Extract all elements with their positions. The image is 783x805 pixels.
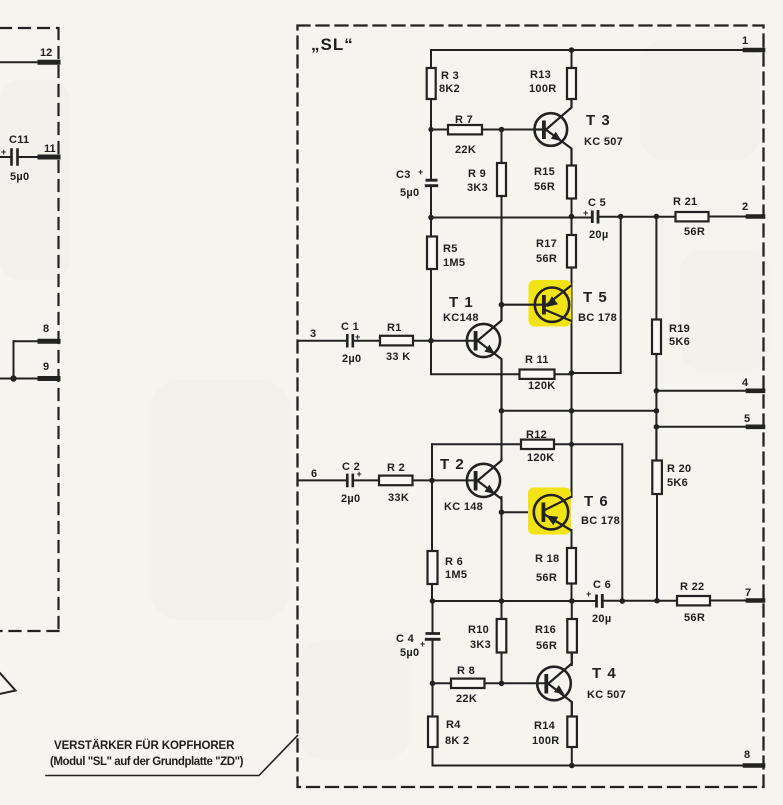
svg-text:11: 11 (44, 143, 56, 155)
junction bottom rail / R14 bottom (569, 763, 575, 769)
svg-text:T 2: T 2 (440, 456, 465, 473)
resistor R17 (567, 235, 576, 268)
capacitor C4 (425, 634, 441, 640)
wire R7 row / T3 base (431, 129, 535, 131)
resistor R6 (428, 551, 438, 584)
wire T2 base (432, 479, 475, 481)
junction dot node9 (10, 375, 16, 381)
wire T1 base (431, 340, 475, 342)
svg-text:33K: 33K (388, 492, 409, 504)
junction T5 base / T1 collector (499, 302, 505, 308)
svg-text:+: + (1, 147, 6, 157)
transistor T1 (467, 305, 502, 411)
svg-text:R5: R5 (443, 243, 458, 255)
junction T4 base / R10 bottom (499, 681, 505, 687)
junction R12 right / T6 column (569, 442, 574, 447)
svg-text:22K: 22K (455, 144, 476, 156)
junction T6 base / T2 emitter (499, 509, 505, 515)
resistor R9 (497, 163, 506, 196)
svg-text:5K6: 5K6 (669, 336, 690, 348)
junction node5 / R20 column (654, 424, 660, 430)
junction node7 rail at left rail (430, 598, 436, 604)
wire R13 collector column (571, 50, 573, 68)
svg-text:T 6: T 6 (584, 493, 609, 510)
capacitor C3 (425, 180, 438, 186)
highlight T6 (528, 488, 571, 535)
svg-text:(Modul "SL" auf der Grundplatt: (Modul "SL" auf der Grundplatte "ZD") (50, 756, 244, 768)
svg-text:R 2: R 2 (387, 462, 405, 474)
wire mid rail (502, 410, 657, 412)
resistor R22 (677, 596, 710, 605)
wire feedback box lower (572, 444, 623, 601)
svg-text:12: 12 (40, 47, 52, 59)
transistor T4 (537, 653, 572, 717)
svg-text:KC148: KC148 (443, 312, 479, 324)
left module dashed border (0, 28, 59, 631)
capacitor C2 (347, 474, 353, 488)
svg-text:R 3: R 3 (441, 70, 459, 82)
svg-text:+: + (357, 469, 362, 479)
junction R8 left on left rail (430, 681, 436, 687)
svg-text:C 4: C 4 (396, 633, 415, 645)
node 8 (left) (14, 340, 59, 342)
svg-text:KC 148: KC 148 (444, 501, 483, 513)
junction mid rail / R19-R20 column (654, 408, 660, 414)
junction node3 input / T1 base (428, 338, 434, 344)
wire left rail lower (431, 444, 434, 765)
junction node7 rail / R20 bottom (654, 598, 660, 604)
svg-text:22K: 22K (456, 693, 477, 705)
resistor R1 (380, 336, 413, 346)
wire R15 to rail2 to R17 (571, 199, 573, 236)
svg-text:R10: R10 (468, 624, 489, 636)
svg-text:R16: R16 (535, 624, 556, 636)
svg-text:4: 4 (742, 377, 749, 389)
svg-text:2µ0: 2µ0 (342, 353, 361, 365)
wire node 5 (656, 426, 763, 428)
svg-text:6: 6 (311, 468, 317, 480)
wire (13, 341, 15, 378)
wire feedback box upper (572, 217, 621, 374)
resistor R15 (567, 166, 576, 199)
svg-text:1: 1 (742, 35, 748, 47)
transistor T2 (467, 458, 502, 512)
wire R11 row right (555, 373, 572, 375)
svg-text:C 6: C 6 (593, 579, 611, 591)
resistor R14 (567, 717, 577, 748)
junction node2 rail / R19 top (654, 214, 660, 220)
resistor R8 (451, 679, 485, 688)
wire R5 stubs (430, 269, 432, 341)
svg-text:KC 507: KC 507 (584, 136, 623, 148)
transistor T6 (534, 495, 572, 531)
svg-text:T 1: T 1 (449, 294, 474, 311)
junction node7 rail / R18 bottom (569, 598, 575, 604)
svg-text:R 7: R 7 (455, 114, 473, 126)
capacitor C6 (597, 594, 603, 608)
svg-text:C 5: C 5 (588, 197, 606, 209)
junction node7 rail / C6 feedback (620, 598, 626, 604)
triangle (corner mark) (0, 662, 16, 696)
wire node 6 input row (299, 479, 433, 481)
wire left rail to R11 row (431, 341, 520, 375)
svg-text:+: + (418, 167, 423, 177)
svg-text:20µ: 20µ (592, 613, 611, 625)
svg-text:R 18: R 18 (535, 553, 559, 565)
junction R7 left on left rail (428, 127, 433, 132)
resistor R10 (497, 619, 507, 653)
svg-text:1M5: 1M5 (445, 569, 467, 581)
pointer line under caption (46, 736, 298, 776)
wire R9 column (501, 130, 503, 305)
wire node 3 input row (299, 340, 432, 342)
svg-text:VERSTÄRKER FÜR KOPFHORER: VERSTÄRKER FÜR KOPFHORER (54, 739, 235, 752)
svg-text:20µ: 20µ (589, 229, 608, 241)
resistor R16 (567, 619, 577, 653)
transistor T5 (502, 285, 572, 322)
svg-text:56R: 56R (536, 572, 557, 584)
svg-text:R 9: R 9 (468, 168, 486, 180)
svg-text:56R: 56R (536, 640, 557, 652)
svg-text:R17: R17 (536, 238, 557, 250)
svg-text:2: 2 (742, 201, 748, 213)
wire T2/T6 column (501, 411, 503, 684)
svg-text:56R: 56R (684, 612, 705, 624)
highlight T5 (529, 280, 572, 327)
junction R11 right / T5 / feedback (569, 370, 575, 376)
svg-text:120K: 120K (528, 380, 556, 392)
capacitor C1 (347, 334, 353, 348)
resistor R18 (567, 548, 576, 584)
wire T6 base (502, 511, 544, 513)
svg-text:56R: 56R (534, 181, 555, 193)
svg-text:100R: 100R (529, 83, 557, 95)
svg-text:T 5: T 5 (583, 289, 608, 306)
svg-text:9: 9 (43, 361, 49, 373)
junction mid rail / T5 column (569, 408, 575, 414)
svg-text:R12: R12 (526, 429, 547, 441)
svg-text:3K3: 3K3 (467, 182, 488, 194)
svg-text:8: 8 (744, 749, 750, 761)
SL box dashed border (298, 26, 764, 788)
junction node6 input / T2 base (429, 478, 435, 484)
transistor T3 (535, 100, 572, 167)
resistor R21 (676, 212, 709, 221)
svg-text:7: 7 (745, 587, 751, 599)
svg-text:3K3: 3K3 (470, 639, 491, 651)
svg-text:5µ0: 5µ0 (400, 187, 419, 199)
wire top rail node 1 (431, 49, 763, 51)
svg-text:R 21: R 21 (673, 196, 697, 208)
resistor R13 (567, 68, 576, 99)
svg-text:R19: R19 (669, 323, 690, 335)
svg-text:8: 8 (43, 323, 49, 335)
svg-text:120K: 120K (527, 452, 555, 464)
svg-text:T 3: T 3 (586, 112, 611, 129)
svg-text:5µ0: 5µ0 (10, 171, 29, 183)
capacitor C5 (592, 210, 598, 224)
capacitor C11 (0, 156, 11, 158)
svg-text:8K2: 8K2 (439, 83, 460, 95)
junction node4 / R19 bottom (654, 388, 660, 394)
resistor R7 (448, 125, 482, 134)
svg-text:1M5: 1M5 (443, 257, 465, 269)
node 12 (0, 61, 58, 63)
svg-text:R4: R4 (446, 719, 461, 731)
junction T3 base / R9 top (499, 127, 505, 133)
svg-text:„SL“: „SL“ (311, 35, 354, 54)
resistor R20 (652, 461, 662, 495)
svg-text:R13: R13 (530, 69, 551, 81)
resistor R3 (427, 68, 436, 99)
svg-text:56R: 56R (684, 226, 705, 238)
wire T4/R14/R16 column (571, 601, 573, 665)
wire R20 column (655, 427, 658, 601)
svg-text:T 4: T 4 (592, 665, 617, 682)
svg-text:+: + (420, 639, 425, 649)
wire node 4 (656, 390, 763, 392)
svg-text:R15: R15 (534, 166, 555, 178)
wire node2 rail (431, 217, 763, 218)
wire T5/T6 right column lower (571, 411, 573, 601)
junction node7 rail / R10 top (499, 598, 505, 604)
junction top rail / R13 (569, 47, 575, 53)
svg-text:5: 5 (744, 413, 750, 425)
wire R8 row / T4 base (433, 682, 547, 684)
wire R19 column (655, 217, 657, 461)
svg-text:+: + (583, 208, 588, 218)
resistor R12 (521, 440, 554, 449)
svg-text:BC 178: BC 178 (581, 515, 620, 527)
svg-text:5K6: 5K6 (667, 477, 688, 489)
resistor R19 (652, 320, 661, 355)
junction node2 rail / C5 feedback (618, 214, 624, 220)
wire T5 column (571, 268, 573, 412)
svg-text:R14: R14 (534, 720, 556, 732)
wire bottom rail node 8 (433, 765, 764, 767)
resistor R5 (427, 237, 437, 270)
svg-text:R 22: R 22 (680, 581, 704, 593)
svg-text:5µ0: 5µ0 (400, 647, 419, 659)
node 9 (left) (0, 378, 58, 380)
svg-text:100R: 100R (532, 735, 560, 747)
svg-text:R 8: R 8 (457, 665, 475, 677)
svg-text:3: 3 (310, 328, 316, 340)
svg-text:R 20: R 20 (667, 463, 691, 475)
svg-text:R 11: R 11 (525, 354, 549, 366)
svg-text:R1: R1 (387, 322, 402, 334)
resistor R2 (379, 476, 413, 486)
svg-text:33 K: 33 K (386, 351, 410, 363)
junction node2 rail / R15-R17 column (569, 214, 575, 220)
resistor R4 (428, 717, 438, 748)
resistor R11 (520, 370, 555, 379)
svg-text:+: + (355, 332, 360, 342)
svg-text:56R: 56R (536, 253, 557, 265)
wire node7 rail (433, 600, 764, 603)
wire R12 row (432, 443, 572, 445)
svg-text:2µ0: 2µ0 (341, 493, 360, 505)
svg-text:R 6: R 6 (445, 556, 463, 568)
wire left rail upper (430, 50, 432, 68)
svg-text:BC 178: BC 178 (578, 312, 617, 324)
junction mid rail / T1 emitter (499, 408, 505, 414)
junction node2 rail at left rail (428, 215, 434, 221)
svg-text:C3: C3 (396, 169, 411, 181)
svg-text:+: + (586, 589, 591, 599)
svg-text:8K 2: 8K 2 (445, 735, 469, 747)
svg-text:KC 507: KC 507 (587, 689, 626, 701)
svg-text:C11: C11 (9, 134, 29, 146)
